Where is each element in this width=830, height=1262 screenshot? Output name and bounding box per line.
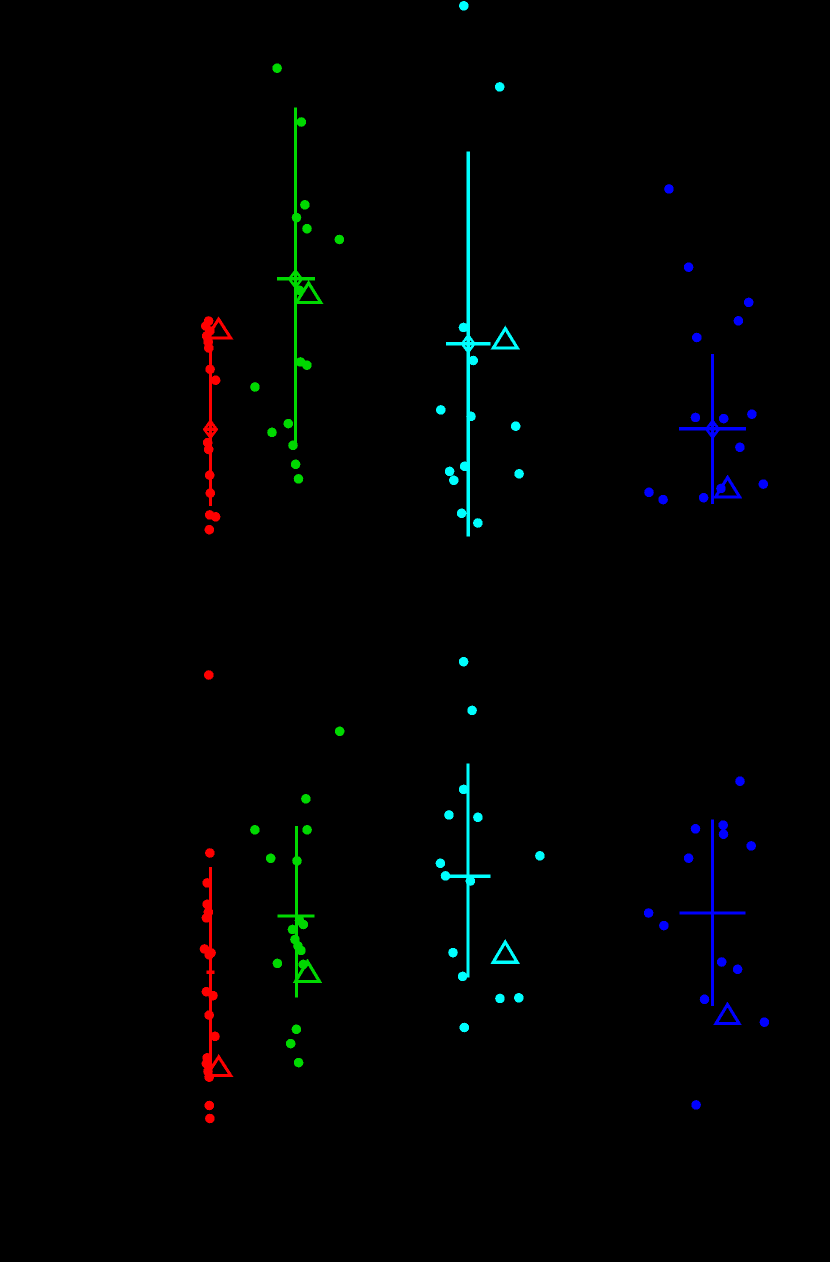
green range line bottom xyxy=(295,826,298,998)
blue open circle marker top xyxy=(708,425,717,434)
red open diamond top xyxy=(204,420,217,438)
group 8 bottom panel: blue series xyxy=(644,776,769,1109)
cyan range line top xyxy=(467,151,470,536)
group 5 bottom panel: red series xyxy=(200,670,231,1123)
blue open triangle bottom xyxy=(716,1005,739,1024)
green open circle marker top xyxy=(291,274,300,283)
cyan open triangle bottom xyxy=(493,942,517,962)
group 4 top panel: blue series xyxy=(644,184,768,504)
red mean tick top xyxy=(207,428,215,431)
green open triangle bottom xyxy=(296,962,320,982)
blue data dots top xyxy=(644,184,768,504)
group 7 bottom panel: cyan series xyxy=(436,657,545,1032)
group 6 bottom panel: green series xyxy=(250,727,344,1068)
green data dots top xyxy=(250,63,344,483)
cyan mean bar bottom xyxy=(447,875,490,878)
green open diamond top xyxy=(289,270,302,288)
blue open diamond top xyxy=(706,420,719,438)
red open triangle bottom xyxy=(207,1057,231,1076)
cyan open diamond top xyxy=(462,335,475,353)
blue open triangle top xyxy=(716,478,740,497)
cyan range line bottom xyxy=(466,764,469,978)
group 3 top panel: cyan series xyxy=(436,1,524,537)
red mean tick bottom xyxy=(207,970,215,973)
green open triangle top xyxy=(297,283,321,302)
group 1 top panel: red series xyxy=(201,316,231,534)
red open triangle top xyxy=(207,319,231,338)
green mean bar bottom xyxy=(277,914,314,917)
red range line top xyxy=(209,349,212,506)
cyan data dots bottom xyxy=(436,657,545,1032)
blue data dots bottom xyxy=(644,776,769,1109)
blue range line top xyxy=(711,354,714,504)
blue mean bar bottom xyxy=(680,911,746,914)
cyan open triangle top xyxy=(493,329,517,349)
red data dots bottom xyxy=(200,670,220,1123)
green mean bar top xyxy=(277,277,315,280)
red data dots top xyxy=(201,316,220,534)
blue range line bottom xyxy=(711,820,714,1006)
blue mean bar top xyxy=(679,427,746,430)
red open circle marker top xyxy=(206,425,215,434)
group 2 top panel: green series xyxy=(250,63,344,483)
green range line top xyxy=(294,108,297,446)
cyan data dots top xyxy=(436,1,524,528)
cyan open circle marker top xyxy=(464,339,473,348)
green data dots bottom xyxy=(250,727,344,1068)
red range line bottom xyxy=(209,867,212,1081)
cyan mean bar top xyxy=(446,342,490,345)
